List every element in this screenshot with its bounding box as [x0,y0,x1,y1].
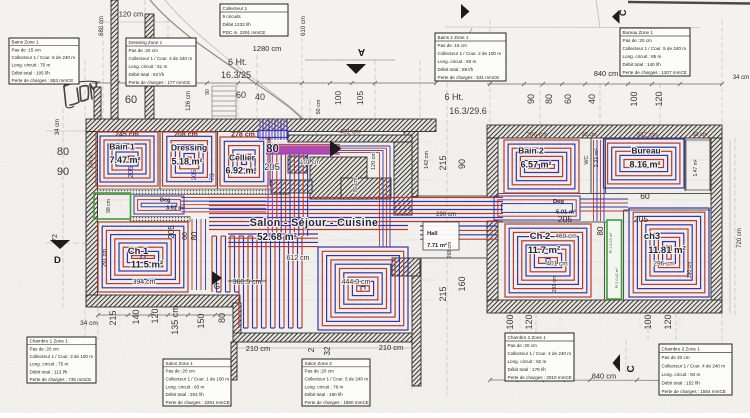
svg-text:Dressing Zone 1: Dressing Zone 1 [129,40,163,45]
svg-text:Pas de :20 cm: Pas de :20 cm [30,346,60,351]
svg-text:Deg: Deg [553,199,564,205]
svg-text:Cellier: Cellier [229,153,256,163]
svg-text:Long. circuit : 94 m: Long. circuit : 94 m [662,372,701,377]
svg-text:Pas de :20 cm: Pas de :20 cm [305,369,335,374]
svg-text:Débit 1233 l/h: Débit 1233 l/h [223,22,252,27]
svg-text:6 Ht.: 6 Ht. [228,57,247,67]
svg-text:80: 80 [190,231,199,240]
svg-text:142 cm: 142 cm [424,151,430,169]
svg-text:100: 100 [629,91,639,106]
svg-text:401 cm: 401 cm [546,261,567,268]
svg-text:2: 2 [307,347,316,352]
svg-text:Collecteur 1 / Cour. 2 de 100: Collecteur 1 / Cour. 2 de 100 m [438,51,502,56]
svg-text:Pas de :20 cm: Pas de :20 cm [508,343,538,348]
svg-text:Chambre 3 Zone 1: Chambre 3 Zone 1 [662,346,701,351]
svg-text:215: 215 [438,155,448,170]
svg-text:205: 205 [558,214,572,224]
svg-text:210 cm: 210 cm [379,343,404,352]
svg-text:840 cm: 840 cm [594,69,619,78]
svg-text:Hall: Hall [427,231,438,237]
svg-text:120: 120 [524,314,534,329]
svg-text:90: 90 [457,159,467,169]
svg-text:Salon Zone 1: Salon Zone 1 [166,361,194,366]
svg-text:PDC m. 2291 mmCE: PDC m. 2291 mmCE [223,30,266,35]
svg-text:Pas de :15 cm: Pas de :15 cm [12,47,42,52]
svg-text:840 cm: 840 cm [592,372,617,381]
svg-text:6 Ht.: 6 Ht. [444,92,463,102]
svg-text:60: 60 [640,191,650,201]
svg-text:Perte de charges : 1880 mmCE: Perte de charges : 1880 mmCE [305,400,369,405]
svg-text:Bain 2: Bain 2 [518,146,544,156]
svg-text:11.7 m²: 11.7 m² [528,245,560,256]
svg-text:Perte de charges : 531 mmCE: Perte de charges : 531 mmCE [438,75,500,80]
svg-text:C: C [626,365,637,372]
svg-text:291 cm: 291 cm [552,276,558,292]
svg-text:Collecteur 1 / Cour. 4 de 240: Collecteur 1 / Cour. 4 de 240 m [662,363,726,368]
svg-text:126 cm: 126 cm [186,91,192,111]
svg-text:WC: WC [584,155,590,164]
svg-text:Bains Zone 1: Bains Zone 1 [12,40,40,45]
svg-text:1280 cm: 1280 cm [253,44,282,53]
svg-text:40: 40 [587,94,597,104]
svg-text:Pas de :20 cm: Pas de :20 cm [129,48,159,53]
svg-text:40: 40 [255,92,265,102]
svg-text:Débit total : 140 l/h: Débit total : 140 l/h [623,62,662,67]
svg-text:120: 120 [150,308,160,323]
svg-text:Ch 2: Ch 2 [530,231,551,242]
svg-text:120: 120 [663,314,673,329]
svg-text:101 cm: 101 cm [300,160,320,166]
svg-text:Débit total : 62 l/h: Débit total : 62 l/h [129,72,165,77]
svg-text:150: 150 [196,313,206,328]
svg-text:360.5 cm: 360.5 cm [233,279,262,286]
svg-text:105: 105 [355,91,365,105]
svg-text:98 cm: 98 cm [106,199,112,213]
svg-text:Pas de :20 cm: Pas de :20 cm [166,369,196,374]
svg-text:52.68 m²: 52.68 m² [257,232,298,243]
svg-text:Ch 1: Ch 1 [128,246,149,257]
svg-text:Collecteur 1: Collecteur 1 [223,6,248,11]
svg-text:8.16 m²: 8.16 m² [629,160,660,170]
svg-text:Collecteur 1 / Cour. 3 de 100: Collecteur 1 / Cour. 3 de 100 m [30,354,94,359]
svg-text:249 cm: 249 cm [89,152,95,168]
svg-text:Débit total : 190 l/h: Débit total : 190 l/h [305,392,344,397]
svg-text:469 cm: 469 cm [555,233,576,240]
svg-text:100: 100 [333,91,343,105]
svg-text:Pas de :20 cm: Pas de :20 cm [623,38,653,43]
svg-text:205: 205 [264,162,280,173]
svg-text:6.92 m²: 6.92 m² [225,166,256,176]
svg-text:680 cm: 680 cm [99,16,105,36]
svg-text:610 cm: 610 cm [301,16,307,36]
svg-text:291 cm: 291 cm [102,249,108,267]
svg-text:444.0 cm: 444.0 cm [342,279,371,286]
svg-text:120 cm: 120 cm [119,10,144,19]
svg-text:Long. circuit : 83 m: Long. circuit : 83 m [438,59,477,64]
svg-text:394 cm: 394 cm [133,279,156,286]
svg-text:80: 80 [217,313,227,323]
svg-text:Salon - Séjour - Cuisine: Salon - Séjour - Cuisine [250,217,379,229]
svg-text:34 cm: 34 cm [733,75,749,81]
svg-text:Collecteur 1 / Cour. 4 de 240: Collecteur 1 / Cour. 4 de 240 m [508,351,572,356]
svg-text:90 cm: 90 cm [582,132,597,138]
svg-text:100: 100 [643,314,653,329]
svg-text:Perte de charges : 653 mmCE: Perte de charges : 653 mmCE [12,78,74,83]
svg-text:Long. circuit : 78 m: Long. circuit : 78 m [305,384,344,389]
svg-text:245 cm: 245 cm [115,132,139,139]
svg-text:D: D [54,255,61,266]
svg-text:11.81 m²: 11.81 m² [648,245,686,256]
svg-text:6.57 m²: 6.57 m² [520,160,551,170]
svg-text:Débit total : 88 l/h: Débit total : 88 l/h [438,67,474,72]
svg-text:Perte de charges : 1554 mmCE: Perte de charges : 1554 mmCE [662,389,726,394]
svg-text:Débit total : 179 l/h: Débit total : 179 l/h [508,367,547,372]
svg-text:Long. circuit : 75 m: Long. circuit : 75 m [30,362,69,367]
svg-text:210 cm: 210 cm [246,344,271,353]
svg-text:120 cm: 120 cm [371,152,377,170]
svg-text:Perte de charges : 735 mmCE: Perte de charges : 735 mmCE [30,377,92,382]
svg-text:Long. circuit : 51 m: Long. circuit : 51 m [129,64,168,69]
svg-text:1.47 m²: 1.47 m² [693,159,699,176]
svg-text:G: G [214,282,220,291]
svg-text:80: 80 [266,144,279,156]
svg-text:612 cm: 612 cm [287,255,310,262]
svg-text:90: 90 [526,94,536,104]
svg-text:73: 73 [209,173,216,181]
svg-text:7.71 m²: 7.71 m² [427,242,447,249]
svg-text:215: 215 [108,310,118,325]
svg-text:34 cm: 34 cm [55,119,61,135]
svg-text:332 cm: 332 cm [636,132,657,139]
svg-text:Bains 2 Zone 1: Bains 2 Zone 1 [438,35,469,40]
svg-text:60: 60 [563,94,573,104]
svg-text:Chambre 1 Zone 1: Chambre 1 Zone 1 [30,339,69,344]
svg-text:208 cm: 208 cm [174,132,198,139]
svg-text:80: 80 [596,226,605,235]
svg-text:215: 215 [438,286,448,301]
svg-text:ch3: ch3 [644,231,660,242]
svg-text:Pas de 20 cm: Pas de 20 cm [662,355,690,360]
svg-text:Pl 1 0.43 m²: Pl 1 0.43 m² [609,232,613,253]
svg-text:Salon Zone 2: Salon Zone 2 [305,361,333,366]
svg-text:461 cm: 461 cm [339,129,360,136]
svg-text:268 cm: 268 cm [447,242,453,258]
svg-text:5.18 m²: 5.18 m² [171,157,202,167]
svg-text:50 cm: 50 cm [316,99,322,114]
svg-text:32: 32 [323,346,332,355]
svg-text:11.5 m²: 11.5 m² [131,260,163,271]
svg-text:7.47 m²: 7.47 m² [109,155,140,165]
svg-text:160: 160 [457,276,467,291]
svg-text:90: 90 [205,89,211,95]
svg-text:720 cm: 720 cm [737,228,743,248]
svg-text:90: 90 [57,166,69,178]
svg-text:390 cm: 390 cm [687,262,693,278]
svg-text:205: 205 [128,166,135,178]
svg-text:Débit total : 152 l/h: Débit total : 152 l/h [662,380,701,385]
svg-text:60 cm: 60 cm [693,132,708,138]
svg-text:Pl 2 0.42 m²: Pl 2 0.42 m² [615,267,619,288]
svg-text:100: 100 [505,314,515,329]
svg-text:Collecteur 1 / Cour. 4 de 240: Collecteur 1 / Cour. 4 de 240 m [129,56,193,61]
svg-text:80: 80 [57,146,69,158]
svg-text:Perte de charges : 2291 mmCE: Perte de charges : 2291 mmCE [166,400,230,405]
svg-text:Collecteur 1 / Cour. 5 de 240: Collecteur 1 / Cour. 5 de 240 m [623,46,687,51]
svg-text:Long. circuit : 75 m: Long. circuit : 75 m [12,63,51,68]
svg-text:Bain 1: Bain 1 [109,142,135,152]
svg-text:Débit total : 113 l/h: Débit total : 113 l/h [30,369,68,374]
svg-text:Long. circuit : 83 m: Long. circuit : 83 m [166,384,205,389]
svg-text:60: 60 [125,94,137,106]
svg-text:205: 205 [634,214,648,224]
svg-text:Deg: Deg [160,198,170,204]
svg-text:Long. circuit : 92 m: Long. circuit : 92 m [508,359,547,364]
svg-text:90 cm: 90 cm [353,177,359,192]
svg-text:9 circuits: 9 circuits [223,14,242,19]
svg-text:290 cm: 290 cm [436,212,456,218]
svg-text:16.3/25: 16.3/25 [221,70,251,80]
svg-text:Chambre 2 Zone 1: Chambre 2 Zone 1 [508,335,547,340]
svg-text:Collecteur 1 / Cour. 5 de 240: Collecteur 1 / Cour. 5 de 240 m [305,377,369,382]
svg-text:Perte de charges : 2010 mmCE: Perte de charges : 2010 mmCE [508,375,572,380]
svg-text:Collecteur 1 / Cour. 1 de 100: Collecteur 1 / Cour. 1 de 100 m [166,377,230,382]
svg-text:Perte de charges : 177 mmCE: Perte de charges : 177 mmCE [129,80,191,85]
svg-text:60: 60 [182,232,189,240]
svg-text:Débit total : 105 l/h: Débit total : 105 l/h [12,70,51,75]
svg-text:80: 80 [544,94,554,104]
svg-text:34 cm: 34 cm [80,320,98,327]
svg-text:A: A [358,46,365,57]
svg-text:Long. circuit : 85 m: Long. circuit : 85 m [623,54,662,59]
svg-text:72: 72 [52,234,59,242]
svg-text:266 cm: 266 cm [526,132,547,139]
svg-text:Bureau Zone 1: Bureau Zone 1 [623,30,654,35]
svg-text:140: 140 [131,309,141,324]
svg-text:Pas de :15 cm: Pas de :15 cm [438,43,468,48]
svg-text:Bureau: Bureau [631,146,660,156]
svg-text:278 cm: 278 cm [231,132,255,139]
svg-text:16.3/29.6: 16.3/29.6 [449,106,487,116]
svg-text:3.51 m²: 3.51 m² [166,205,185,212]
svg-text:296 cm: 296 cm [653,261,674,268]
svg-text:Dressing: Dressing [171,143,207,153]
svg-text:C: C [618,9,628,16]
svg-text:205: 205 [167,225,176,239]
svg-text:205: 205 [191,169,198,180]
svg-text:135 cm: 135 cm [170,305,180,335]
svg-text:2.21 m²: 2.21 m² [594,149,600,168]
svg-text:Collecteur 1 / Cour. 5 de 240: Collecteur 1 / Cour. 5 de 240 m [12,55,76,60]
svg-text:120: 120 [654,91,664,106]
svg-text:60: 60 [236,90,246,100]
svg-text:Débit total : 204 l/h: Débit total : 204 l/h [166,392,205,397]
svg-text:Perte de charges : 1207 mmCE: Perte de charges : 1207 mmCE [623,70,687,75]
